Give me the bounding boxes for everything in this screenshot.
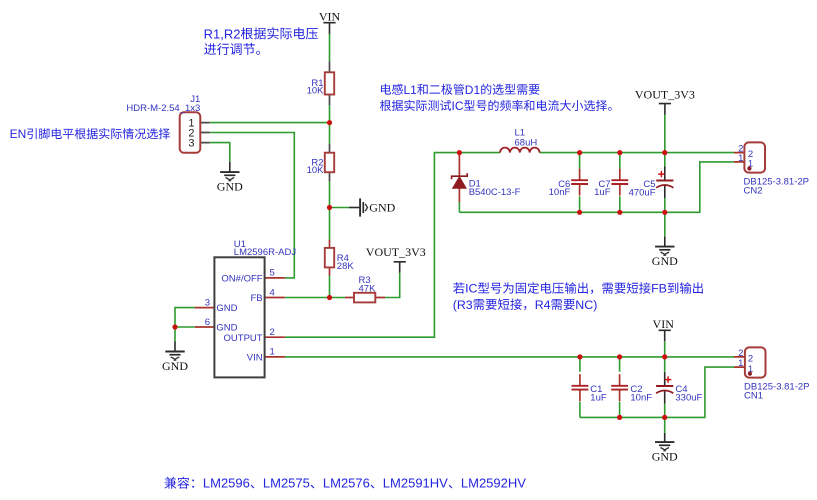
svg-text:470uF: 470uF <box>629 188 656 199</box>
svg-text:5: 5 <box>270 268 275 279</box>
wire <box>619 153 621 169</box>
svg-text:3: 3 <box>188 138 194 150</box>
svg-text:VIN: VIN <box>653 317 675 331</box>
junction output gnd <box>662 210 667 215</box>
wire <box>664 403 666 417</box>
wire <box>664 341 666 357</box>
svg-text:OUTPUT: OUTPUT <box>224 333 263 344</box>
svg-text:LM2596R-ADJ: LM2596R-ADJ <box>234 247 297 258</box>
svg-text:GND: GND <box>652 254 678 268</box>
wire <box>579 357 581 372</box>
svg-text:LM2596: LM2596 <box>203 476 250 491</box>
svg-text:HDR-M-2.54_1x3: HDR-M-2.54_1x3 <box>126 103 200 114</box>
wire <box>458 202 460 212</box>
svg-text:VIN: VIN <box>247 352 263 363</box>
svg-text:VIN: VIN <box>319 9 341 23</box>
capacitor C1 <box>572 374 607 403</box>
svg-text:GND: GND <box>216 303 237 314</box>
resistor R1 <box>307 62 335 106</box>
power flag VOUT_3V3 (output connector) <box>635 87 695 114</box>
svg-text:6: 6 <box>205 317 210 328</box>
junction C7 bottom <box>617 210 622 215</box>
svg-text:1uF: 1uF <box>594 187 611 198</box>
svg-text:GND: GND <box>162 359 188 373</box>
junction input gnd <box>662 415 667 420</box>
inductor L1 68uH <box>500 128 540 153</box>
svg-text:R1,R2: R1,R2 <box>204 26 241 41</box>
junction C2 top <box>617 354 622 359</box>
ground GND (input filter) <box>652 433 678 464</box>
connector CN2 DB125-3.81-2P <box>734 142 809 196</box>
junction C6 top <box>577 150 582 155</box>
wire <box>285 356 734 358</box>
svg-text:28K: 28K <box>337 261 355 272</box>
svg-text:GND: GND <box>217 179 243 193</box>
svg-text:10K: 10K <box>307 86 325 97</box>
svg-text:1: 1 <box>270 347 275 358</box>
ground GND (output filter) <box>652 237 678 268</box>
wire <box>579 196 581 212</box>
wire <box>619 402 621 418</box>
capacitor C7 <box>594 169 628 199</box>
note: fixed output (line 1) <box>453 282 703 296</box>
wire <box>540 152 735 154</box>
wire <box>175 326 195 328</box>
svg-text:330uF: 330uF <box>675 392 702 403</box>
svg-text:IC: IC <box>452 99 464 113</box>
capacitor C4 (polarized) <box>656 372 702 404</box>
wire <box>664 198 666 212</box>
svg-text:10nF: 10nF <box>630 392 652 403</box>
capacitor C5 (polarized) <box>629 167 674 199</box>
wire <box>664 115 666 153</box>
svg-text:10nF: 10nF <box>549 187 571 198</box>
power flag VOUT_3V3 (feedback) <box>366 245 426 273</box>
wire <box>385 273 400 298</box>
svg-text:CN2: CN2 <box>744 185 763 196</box>
resistor R2 <box>307 144 335 181</box>
svg-text:1uF: 1uF <box>590 392 607 403</box>
svg-text:ON#/OFF: ON#/OFF <box>221 273 262 284</box>
junction VIN node <box>662 354 667 359</box>
svg-text:L1: L1 <box>404 83 418 97</box>
svg-text:NC): NC) <box>575 298 597 312</box>
note: compatible parts <box>164 476 526 491</box>
svg-text:LM2576: LM2576 <box>323 476 370 491</box>
svg-text:IC: IC <box>465 282 477 296</box>
note: R1,R2 adjustment (line 1) <box>204 26 318 41</box>
ground GND (below J1) <box>217 162 243 194</box>
wire <box>330 207 349 209</box>
junction VIN/R1/J1.1 <box>327 120 332 125</box>
wire <box>329 276 331 298</box>
svg-text:CN1: CN1 <box>744 390 763 401</box>
note: L1/D1 selection (line 1) <box>381 83 540 97</box>
wire <box>459 162 734 212</box>
wire <box>664 417 666 433</box>
svg-text:2: 2 <box>748 354 753 365</box>
op-amp U1 LM2596R-ADJ <box>195 239 297 378</box>
wire <box>619 357 621 372</box>
wire <box>329 33 331 62</box>
wire <box>285 153 500 338</box>
power flag VIN (bottom input) <box>653 317 675 341</box>
svg-text:1: 1 <box>738 358 743 369</box>
svg-text:FB: FB <box>651 282 667 296</box>
svg-text:3: 3 <box>205 297 210 308</box>
ground GND (U1 ground pins) <box>162 342 188 373</box>
wire <box>210 122 330 124</box>
svg-text:FB: FB <box>250 293 262 304</box>
junction C2 bottom <box>617 415 622 420</box>
svg-text:EN: EN <box>10 127 27 141</box>
connector CN1 DB125-3.81-2P <box>734 347 809 401</box>
diode D1 B540C-13-F <box>452 153 521 202</box>
svg-text:VOUT_3V3: VOUT_3V3 <box>366 245 426 259</box>
note: R1,R2 adjustment (line 2) <box>204 43 260 55</box>
svg-text:68uH: 68uH <box>515 137 538 148</box>
wire <box>579 153 581 169</box>
svg-text:LM2575: LM2575 <box>263 476 310 491</box>
note: fixed output (line 2) <box>453 298 598 312</box>
capacitor C2 <box>611 374 652 403</box>
wire <box>664 212 666 236</box>
svg-text:(R3: (R3 <box>453 298 473 312</box>
wire <box>329 105 331 144</box>
svg-text:R4: R4 <box>535 298 551 312</box>
power flag VIN (top) <box>319 9 341 33</box>
wire <box>329 181 331 240</box>
connector J1 HDR-M-2.54_1x3 <box>126 94 209 153</box>
svg-text:2: 2 <box>270 327 275 338</box>
svg-text:GND: GND <box>369 201 395 215</box>
svg-text:GND: GND <box>652 449 678 463</box>
svg-text:LM2591HV: LM2591HV <box>383 476 448 491</box>
wire <box>579 402 581 418</box>
svg-text:VOUT_3V3: VOUT_3V3 <box>635 87 695 101</box>
junction U1 GND <box>172 324 177 329</box>
svg-text:1: 1 <box>738 153 743 164</box>
wire <box>175 308 195 342</box>
wire <box>664 357 666 372</box>
wire <box>210 143 230 162</box>
wire <box>619 196 621 212</box>
wire <box>664 153 666 167</box>
wire <box>285 297 345 299</box>
junction C1 top <box>577 354 582 359</box>
svg-text:47K: 47K <box>359 283 377 294</box>
svg-text:10K: 10K <box>307 165 325 176</box>
resistor R4 <box>325 240 355 276</box>
ground GND (R2/R4 divider node, rotated flag) <box>349 198 396 216</box>
junction R2/R4/GND <box>327 205 332 210</box>
junction C6 bottom <box>577 210 582 215</box>
note: L1/D1 selection (line 2) <box>380 99 612 113</box>
svg-text:D1: D1 <box>465 83 481 97</box>
junction FB node <box>327 295 332 300</box>
junction C7 top <box>617 150 622 155</box>
wire <box>210 133 294 278</box>
svg-text:4: 4 <box>270 287 275 298</box>
note: EN pin level <box>10 127 170 141</box>
capacitor C6 <box>549 169 588 199</box>
wire <box>580 367 734 417</box>
svg-text:GND: GND <box>216 322 237 333</box>
junction switch node D1 <box>457 150 462 155</box>
svg-text:B540C-13-F: B540C-13-F <box>469 187 521 198</box>
svg-text:LM2592HV: LM2592HV <box>461 476 526 491</box>
junction VOUT node <box>662 150 667 155</box>
resistor R3 <box>345 275 385 302</box>
